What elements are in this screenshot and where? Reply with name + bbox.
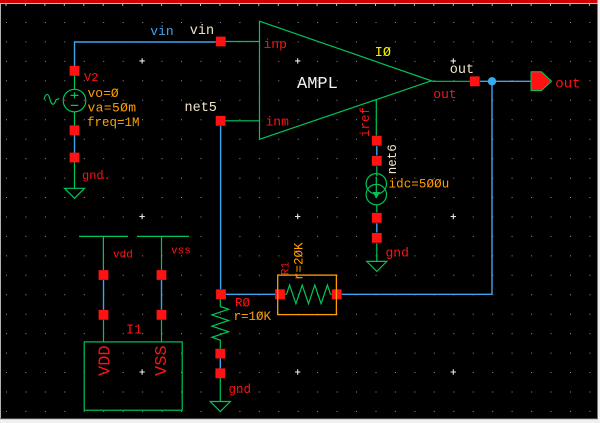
svg-text:vss: vss: [171, 246, 191, 258]
svg-text:R1: R1: [281, 261, 293, 275]
svg-text:I1: I1: [126, 324, 142, 339]
svg-text:freq=1M: freq=1M: [87, 116, 140, 130]
svg-text:vo=Ø: vo=Ø: [88, 86, 119, 101]
svg-text:gnd.: gnd.: [82, 169, 111, 183]
svg-text:idc=5ØØu: idc=5ØØu: [389, 177, 450, 191]
svg-text:IØ: IØ: [375, 46, 391, 61]
svg-text:vin: vin: [190, 24, 214, 39]
svg-text:VSS: VSS: [153, 345, 172, 376]
svg-text:vin: vin: [150, 24, 173, 39]
svg-text:AMPL: AMPL: [297, 75, 338, 94]
svg-text:RØ: RØ: [235, 297, 251, 311]
svg-text:vdd: vdd: [113, 250, 133, 262]
svg-text:va=5Øm: va=5Øm: [88, 100, 137, 115]
svg-text:out: out: [555, 77, 580, 93]
svg-text:r=2ØK: r=2ØK: [293, 242, 307, 280]
svg-text:iref: iref: [359, 107, 373, 137]
svg-text:r=1ØK: r=1ØK: [234, 310, 272, 324]
svg-text:out: out: [433, 87, 456, 102]
svg-text:inp: inp: [264, 37, 287, 52]
svg-text:gnd: gnd: [229, 383, 252, 397]
svg-text:inm: inm: [266, 115, 290, 130]
svg-text:out: out: [450, 63, 474, 78]
svg-text:VDD: VDD: [97, 345, 116, 376]
svg-text:gnd: gnd: [386, 246, 409, 261]
svg-text:V2: V2: [84, 71, 98, 85]
svg-text:net6: net6: [386, 144, 400, 174]
svg-text:net5: net5: [185, 101, 217, 116]
